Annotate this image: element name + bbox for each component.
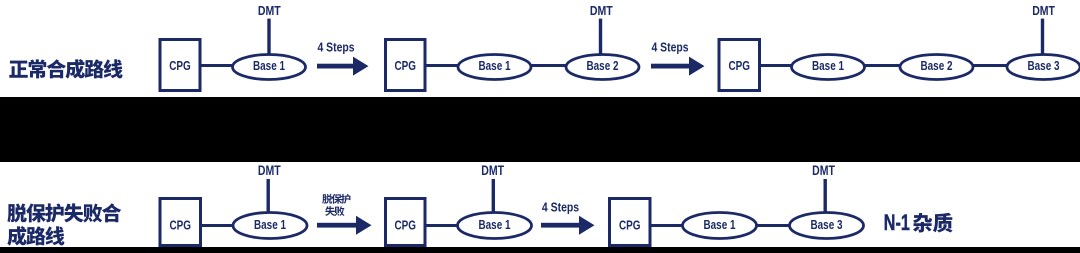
svg-text:DMT: DMT: [258, 163, 281, 178]
wire box2-base1 (row2): [426, 224, 458, 227]
white band row 1: [0, 0, 1080, 97]
wire box1-base1 (row2): [202, 224, 235, 227]
svg-text:CPG: CPG: [729, 59, 751, 73]
svg-text:Base 1: Base 1: [812, 59, 844, 73]
svg-text:Base 1: Base 1: [479, 59, 511, 73]
wire box1-base1 (row1): [201, 64, 233, 67]
white band row 2: [0, 162, 1080, 247]
ellipse Base 1 (row1 g1): [233, 55, 306, 80]
DMT label 1 (row2): [258, 163, 281, 211]
svg-text:Base 2: Base 2: [921, 59, 953, 73]
svg-text:N-1: N-1: [884, 210, 910, 235]
arrow 4 Steps (row1 a2): [651, 57, 705, 76]
DMT label 1 (row1): [258, 4, 281, 54]
svg-text:Base 3: Base 3: [811, 218, 843, 232]
wire box3-base1 (row1): [761, 64, 792, 67]
svg-text:Base 3: Base 3: [1028, 59, 1060, 73]
CPG box 1 (row1): [160, 40, 200, 91]
svg-text:Base 1: Base 1: [479, 218, 511, 232]
svg-text:DMT: DMT: [1032, 4, 1055, 18]
wire base1-base3 (row2 g3): [757, 224, 791, 227]
svg-text:DMT: DMT: [258, 4, 281, 18]
wire base1-base2 (row1 g2): [531, 64, 566, 67]
label: N-1杂质: [884, 210, 953, 235]
wire box2-base1 (row1): [426, 64, 458, 67]
svg-text:CPG: CPG: [395, 59, 417, 73]
wire base2-base3 (row1 g3): [973, 64, 1007, 67]
svg-text:4 Steps: 4 Steps: [652, 39, 689, 54]
label: 正常合成路线: [9, 59, 122, 79]
CPG box 3 (row2): [610, 199, 651, 246]
ellipse Base 2 (row1 g3): [900, 55, 973, 80]
wire base1-base2 (row1 g3): [865, 64, 901, 67]
svg-text:4 Steps: 4 Steps: [542, 200, 579, 214]
ellipse Base 3 (row1 g3): [1007, 55, 1080, 80]
CPG box 2 (row1): [386, 40, 426, 91]
ellipse Base 1 (row1 g2): [458, 55, 531, 80]
CPG box 2 (row2): [386, 199, 426, 246]
svg-text:4 Steps: 4 Steps: [318, 39, 355, 54]
svg-text:CPG: CPG: [395, 219, 417, 233]
svg-text:CPG: CPG: [170, 219, 192, 233]
ellipse Base 1 (row1 g3): [792, 55, 865, 80]
text 脱保护 (row2 arrow1): [322, 194, 350, 204]
svg-text:Base 1: Base 1: [253, 59, 285, 73]
DMT label 3 (row1): [1032, 4, 1055, 54]
DMT label 2 (row1): [590, 4, 613, 54]
wire box3-base1 (row2): [651, 224, 683, 227]
svg-text:DMT: DMT: [812, 163, 835, 178]
DMT label 3 (row2): [812, 163, 835, 211]
CPG box 1 (row2): [160, 199, 201, 246]
text 失败 (row2 arrow1): [325, 206, 344, 216]
arrow deprotect-fail (row2): [317, 216, 372, 235]
label: 脱保护失败合 (line1): [7, 203, 121, 222]
svg-text:DMT: DMT: [481, 163, 504, 178]
ellipse Base 2 (row1 g2): [566, 55, 639, 80]
DMT label 2 (row2): [481, 163, 504, 211]
ellipse Base 1 (row2 g2): [458, 213, 532, 239]
svg-text:Base 2: Base 2: [587, 59, 619, 73]
arrow 4 Steps (row1 a1): [317, 57, 369, 76]
ellipse Base 1 (row2 g3): [683, 213, 757, 239]
svg-text:Base 1: Base 1: [254, 218, 286, 232]
CPG box 3 (row1): [719, 40, 760, 91]
label: 成路线 (line2): [7, 226, 64, 246]
svg-text:CPG: CPG: [619, 219, 641, 233]
svg-text:DMT: DMT: [590, 4, 613, 18]
svg-text:Base 1: Base 1: [704, 218, 736, 232]
ellipse Base 3 (row2 g3): [790, 213, 864, 239]
ellipse Base 1 (row2 g1): [233, 213, 307, 239]
arrow 4 Steps (row2): [541, 216, 595, 235]
svg-text:CPG: CPG: [169, 59, 191, 73]
